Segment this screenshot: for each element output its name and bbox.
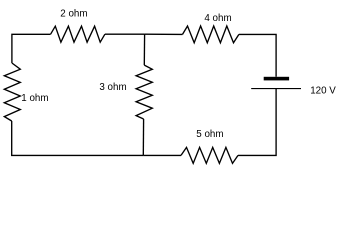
wire: battery bottom plate down, bottom-right corner, left to R5 [238, 89, 276, 156]
svg-text:5 ohm: 5 ohm [196, 129, 223, 140]
wire: top junction to R4 [145, 33, 183, 35]
wire: R5 left to bottom junction [143, 154, 181, 156]
wire: bottom junction to bottom-left corner and up to R1 [12, 121, 144, 155]
wire: top junction down to R3 [143, 34, 145, 65]
resistor 1 ohm (vertical zigzag, left branch) [4, 63, 20, 121]
wire: R2 to top junction [105, 33, 145, 35]
wire: left vertical upper + top-left corner + top wire to R2 [12, 34, 51, 63]
resistor 3 ohm (vertical zigzag, middle branch) [136, 65, 152, 119]
battery V1 bottom plate (thin line) [251, 88, 301, 90]
svg-text:2 ohm: 2 ohm [60, 9, 87, 20]
wire: R3 down to bottom junction [142, 119, 144, 155]
resistor 5 ohm (horizontal zigzag, bottom branch) [181, 147, 238, 163]
svg-text:1 ohm: 1 ohm [21, 93, 48, 104]
resistor 4 ohm (horizontal zigzag, top-right branch) [183, 26, 239, 43]
wire: R4 to top-right corner, down to battery top plate [239, 34, 276, 76]
battery V1 top plate (thick bar) [264, 77, 289, 81]
svg-text:3 ohm: 3 ohm [99, 82, 126, 93]
svg-text:120 V: 120 V [310, 85, 336, 96]
resistor 2 ohm (horizontal zigzag, top-left branch) [51, 26, 105, 42]
svg-text:4 ohm: 4 ohm [204, 13, 231, 24]
